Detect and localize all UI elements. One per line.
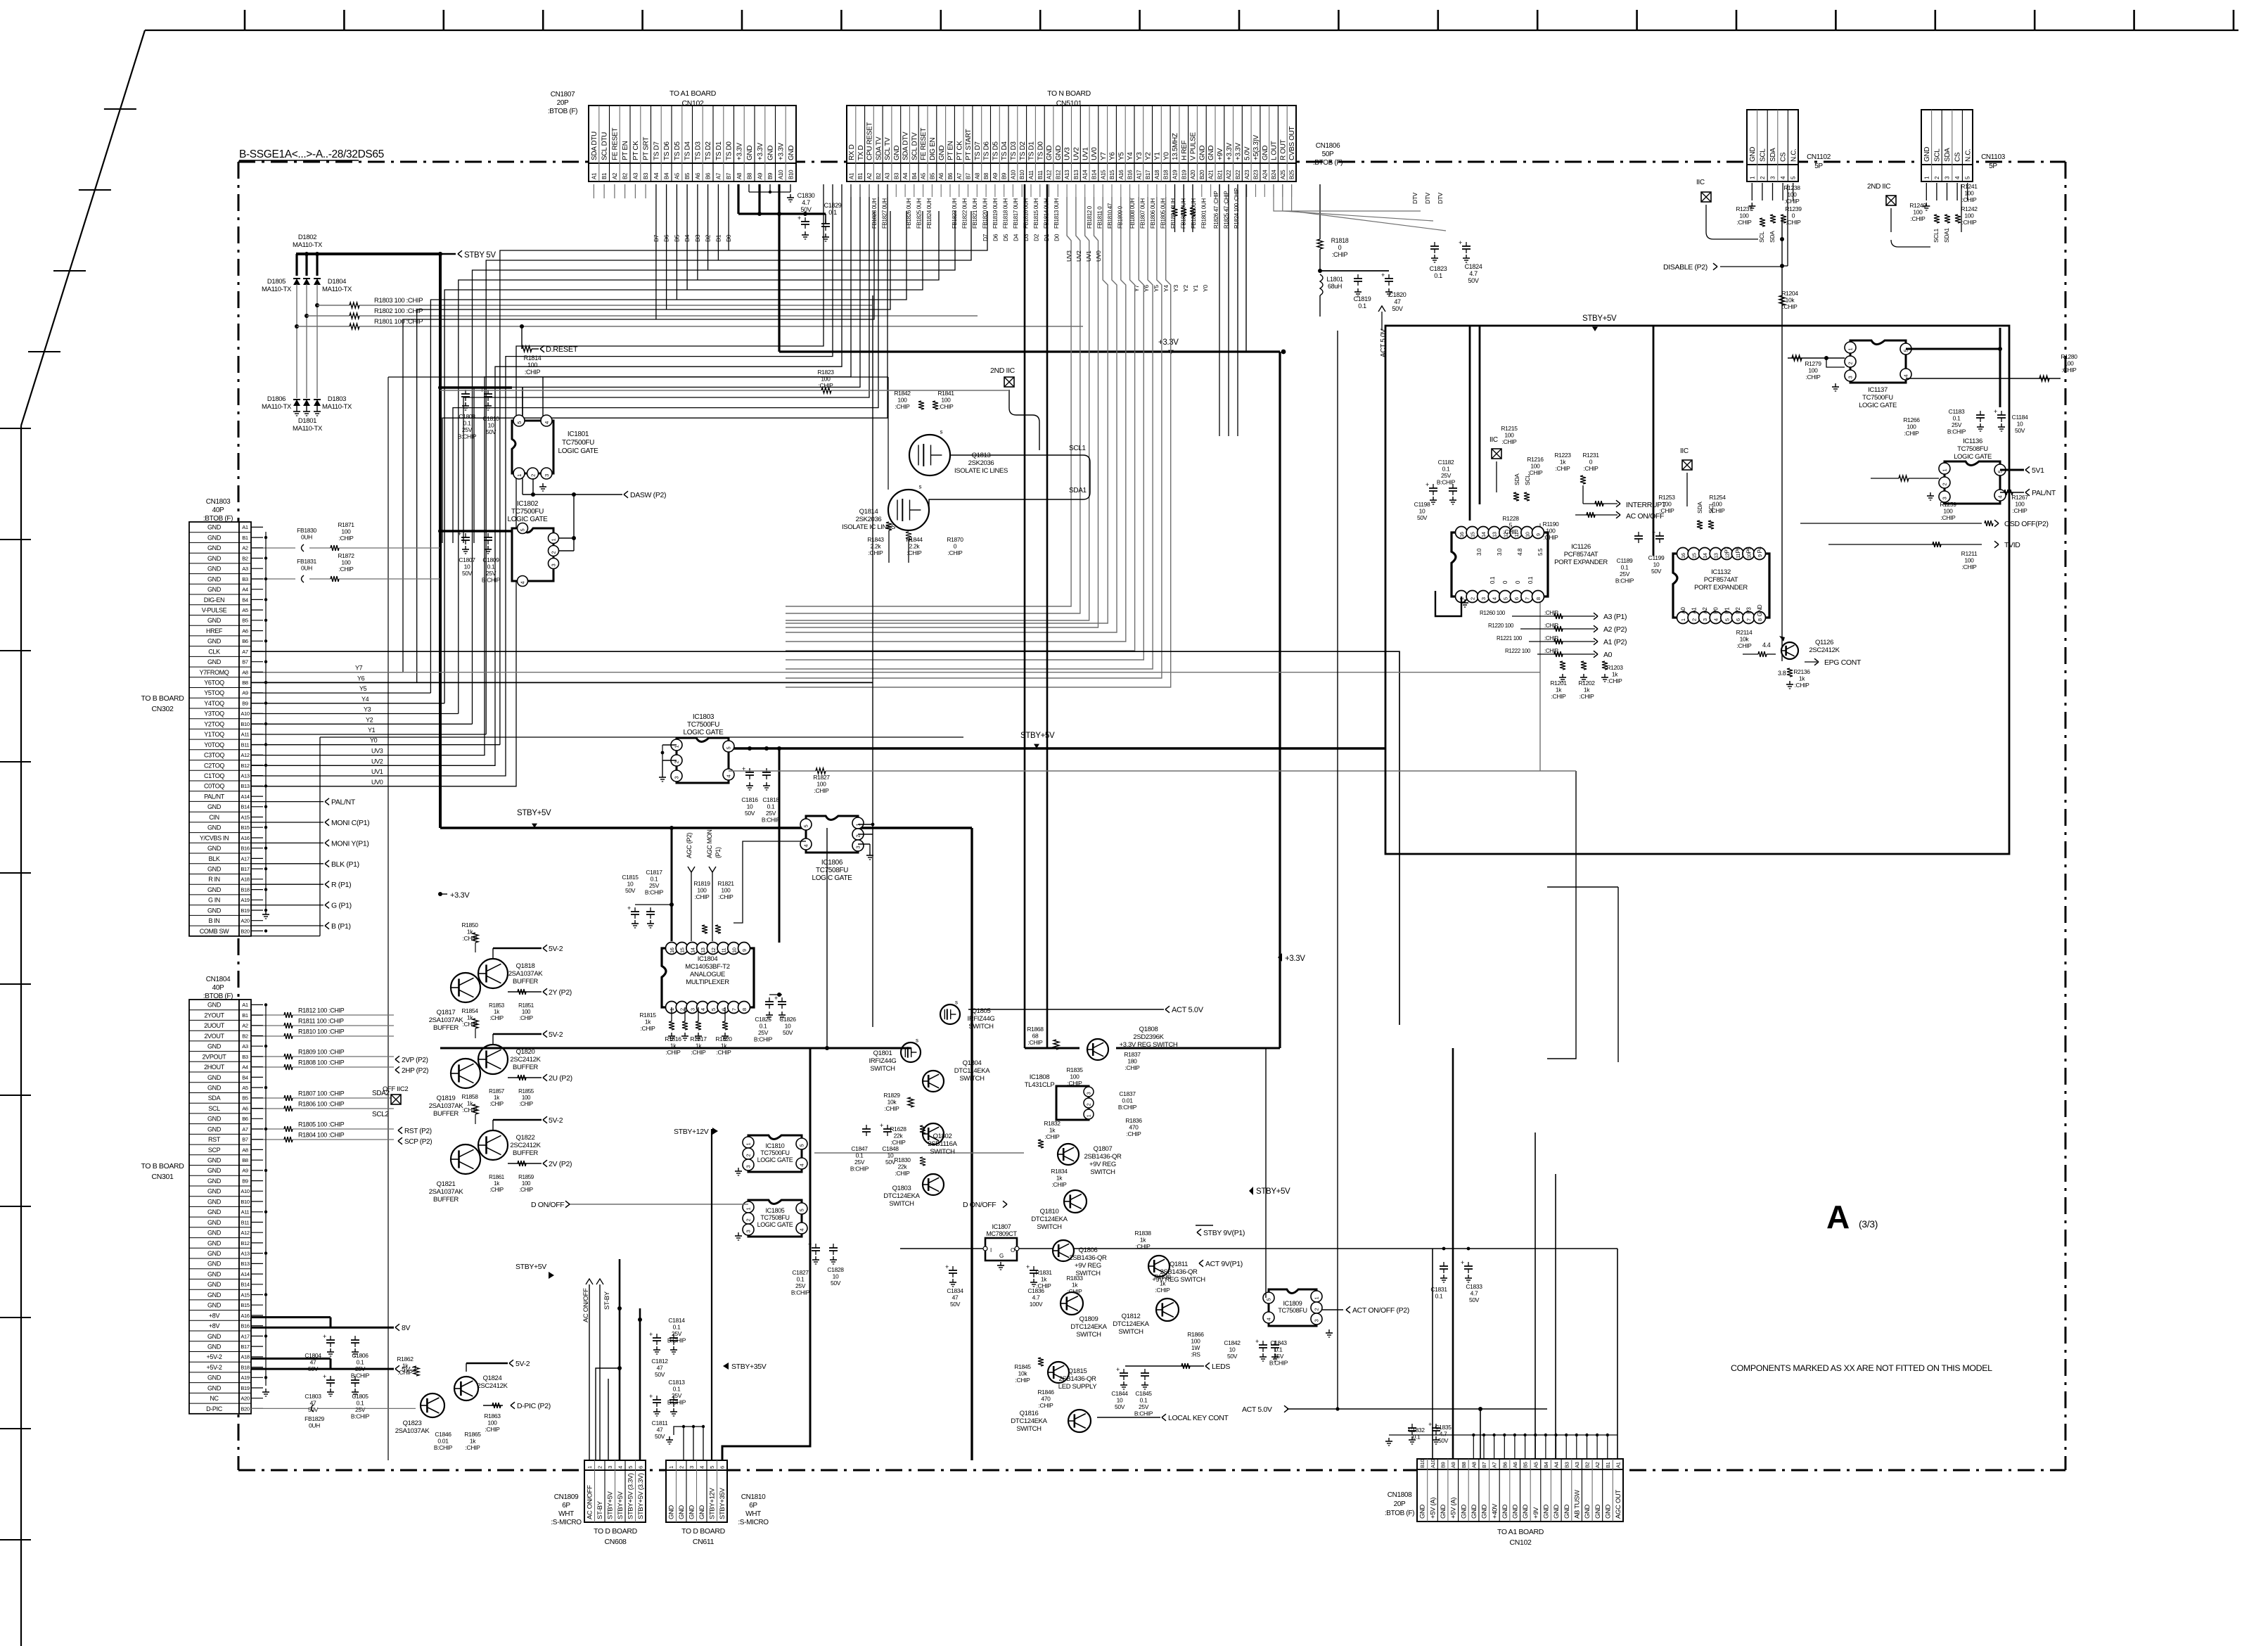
svg-text:50V: 50V [801, 206, 812, 213]
svg-text:4: 4 [726, 775, 732, 778]
svg-text:+9V REG: +9V REG [1089, 1161, 1116, 1168]
svg-text:A18: A18 [241, 1354, 249, 1360]
svg-text:1k: 1k [1799, 675, 1805, 682]
svg-text:STBY+5V (3.3V): STBY+5V (3.3V) [627, 1473, 635, 1519]
svg-text:1k: 1k [1056, 1175, 1063, 1182]
svg-text:H REF: H REF [1181, 141, 1189, 160]
svg-text:A7: A7 [242, 1126, 248, 1133]
svg-text:A17: A17 [241, 855, 249, 862]
svg-text:LOGIC GATE: LOGIC GATE [757, 1221, 793, 1228]
svg-text:10: 10 [1117, 1397, 1123, 1404]
svg-text:0.1: 0.1 [1140, 1397, 1148, 1404]
svg-text:PT CK: PT CK [632, 141, 640, 160]
svg-text::CHIP: :CHIP [463, 1021, 478, 1028]
svg-text:R1812 100 :CHIP: R1812 100 :CHIP [298, 1007, 345, 1014]
svg-text:CN1103: CN1103 [1981, 153, 2006, 161]
svg-text:UV3: UV3 [1064, 147, 1072, 160]
svg-text:B:CHIP: B:CHIP [351, 1372, 370, 1379]
svg-text:STBY+12V: STBY+12V [674, 1128, 709, 1136]
svg-text:B3: B3 [242, 1054, 248, 1060]
svg-text:RST: RST [208, 1136, 221, 1143]
svg-text:2SB1116A: 2SB1116A [928, 1140, 957, 1148]
svg-text:P1: P1 [1724, 607, 1730, 614]
svg-text:G: G [999, 1253, 1004, 1259]
svg-text:A13: A13 [241, 773, 249, 779]
svg-text:R OUT: R OUT [1279, 139, 1287, 160]
svg-text:100: 100 [1662, 501, 1672, 508]
svg-text:0.1: 0.1 [1527, 576, 1534, 584]
svg-text:GND: GND [207, 638, 222, 645]
svg-text:50V: 50V [655, 1433, 665, 1440]
svg-text:Q1817: Q1817 [437, 1009, 456, 1016]
svg-text:D1803: D1803 [328, 395, 346, 403]
svg-text:C1182: C1182 [1438, 459, 1454, 466]
svg-text:TS D5: TS D5 [992, 141, 1000, 160]
svg-text:1k: 1k [467, 1014, 473, 1021]
svg-text:R1865: R1865 [464, 1431, 481, 1438]
svg-text:C1814: C1814 [668, 1317, 685, 1324]
svg-text:100: 100 [1964, 557, 1974, 564]
svg-text:FB1831: FB1831 [297, 558, 316, 565]
svg-text:Y4: Y4 [1127, 152, 1134, 160]
svg-text:13: 13 [1492, 532, 1498, 537]
svg-text:FB1809 0: FB1809 0 [1117, 205, 1124, 229]
svg-text:PAL/NT: PAL/NT [331, 798, 356, 807]
svg-text:A23: A23 [1244, 170, 1250, 179]
svg-text:R1238: R1238 [1783, 184, 1800, 191]
svg-text::CHIP: :CHIP [1127, 1130, 1142, 1137]
svg-text:A3: A3 [885, 172, 891, 179]
svg-text:Q1807: Q1807 [1094, 1145, 1113, 1153]
svg-text:A10: A10 [778, 170, 784, 179]
svg-text:B2: B2 [242, 555, 248, 561]
svg-text:STBY+5V: STBY+5V [515, 1263, 546, 1271]
svg-text:B:CHIP: B:CHIP [482, 577, 501, 584]
svg-text:5: 5 [1266, 1299, 1272, 1301]
svg-text:CN1806: CN1806 [1316, 142, 1340, 150]
svg-text:50V: 50V [625, 887, 636, 894]
svg-text:B2: B2 [242, 1033, 248, 1039]
svg-text:B14: B14 [1091, 170, 1098, 179]
svg-text:GND: GND [1419, 1504, 1427, 1519]
svg-text:TC7500FU: TC7500FU [1862, 394, 1893, 402]
svg-text:5.5: 5.5 [1537, 548, 1544, 556]
svg-text:BUFFER: BUFFER [433, 1110, 459, 1118]
svg-text:D7: D7 [982, 234, 989, 241]
svg-text:UV0: UV0 [1095, 250, 1102, 262]
svg-text:1: 1 [1314, 1297, 1320, 1300]
svg-text::CHIP: :CHIP [398, 1369, 414, 1376]
svg-text:BUFFER: BUFFER [513, 1064, 538, 1071]
svg-text:Q1814: Q1814 [859, 508, 878, 516]
svg-text:B7: B7 [726, 172, 732, 179]
svg-text:IRFIZ44G: IRFIZ44G [869, 1057, 897, 1065]
svg-text:25V: 25V [672, 1392, 682, 1399]
svg-text::CHIP: :CHIP [1136, 1243, 1151, 1250]
svg-text:Y3TOQ: Y3TOQ [204, 710, 224, 717]
svg-text:TS D2: TS D2 [705, 141, 712, 160]
svg-text:0.1: 0.1 [828, 209, 837, 216]
svg-text:Q1808: Q1808 [1139, 1026, 1158, 1033]
svg-text:50V: 50V [1392, 305, 1403, 312]
svg-text:GND: GND [1923, 147, 1931, 162]
svg-text:B:CHIP: B:CHIP [762, 817, 781, 824]
svg-text:100: 100 [1787, 191, 1797, 198]
svg-text:25V: 25V [1139, 1403, 1149, 1410]
svg-text:3: 3 [544, 474, 550, 477]
svg-text:1: 1 [1087, 1114, 1092, 1117]
svg-text:50V: 50V [1417, 514, 1428, 521]
svg-text:B4: B4 [242, 1074, 248, 1080]
svg-text:R1203: R1203 [1606, 664, 1623, 671]
svg-text:15: 15 [679, 948, 686, 953]
svg-text:Q1815: Q1815 [1068, 1367, 1087, 1375]
svg-text:2SC2412K: 2SC2412K [1809, 646, 1840, 654]
svg-text:D4: D4 [684, 234, 691, 242]
svg-text::BTOB (F): :BTOB (F) [1313, 159, 1343, 167]
svg-text::BTOB (F): :BTOB (F) [203, 993, 233, 1000]
svg-text:MA110-TX: MA110-TX [322, 286, 352, 293]
svg-text:I: I [990, 1247, 992, 1253]
svg-text:Y6: Y6 [1109, 152, 1117, 160]
svg-text:0UH: 0UH [301, 534, 312, 541]
svg-text:A7: A7 [956, 172, 963, 179]
svg-text:0: 0 [1792, 212, 1795, 219]
svg-text:4: 4 [799, 1229, 805, 1232]
svg-text:B5: B5 [242, 618, 248, 624]
svg-text:B:CHIP: B:CHIP [1134, 1410, 1153, 1417]
svg-text:B:CHIP: B:CHIP [667, 1399, 686, 1406]
svg-text:2UOUT: 2UOUT [204, 1022, 225, 1029]
svg-text:+8V: +8V [209, 1312, 220, 1319]
svg-text:470: 470 [1129, 1124, 1139, 1131]
svg-text:B17: B17 [241, 866, 249, 872]
svg-text:MA110-TX: MA110-TX [293, 241, 323, 249]
svg-text:+3.3V: +3.3V [757, 143, 764, 160]
svg-text:UV0: UV0 [1091, 147, 1098, 160]
svg-text:STBY+5V: STBY+5V [1256, 1187, 1290, 1196]
svg-text:A7: A7 [1492, 1462, 1498, 1468]
svg-text:C1831: C1831 [1430, 1286, 1447, 1293]
svg-text:IC1801: IC1801 [568, 430, 589, 438]
svg-text:DTC124EKA: DTC124EKA [1031, 1216, 1068, 1223]
svg-text:B1: B1 [242, 535, 248, 541]
svg-text:BUFFER: BUFFER [433, 1196, 459, 1204]
svg-text::CHIP: :CHIP [1580, 693, 1595, 700]
svg-text:B3: B3 [242, 576, 248, 582]
svg-text:AB TUSW: AB TUSW [1574, 1490, 1582, 1519]
svg-text:5V-2: 5V-2 [549, 1116, 563, 1125]
svg-text:FB1825 0UH: FB1825 0UH [916, 198, 923, 229]
svg-text::CHIP: :CHIP [1039, 1402, 1054, 1409]
svg-text:0.1: 0.1 [357, 1359, 364, 1366]
svg-text:Y5: Y5 [359, 685, 367, 692]
svg-text:A2 (P2): A2 (P2) [1603, 625, 1627, 634]
svg-text:C1830: C1830 [797, 192, 815, 199]
svg-text:10: 10 [2017, 421, 2023, 428]
svg-text::CHIP: :CHIP [525, 369, 541, 376]
svg-text:+: + [649, 1331, 653, 1338]
svg-text::CHIP: :CHIP [1911, 215, 1926, 222]
svg-text:Y1: Y1 [1192, 285, 1199, 292]
svg-text:GND: GND [1481, 1504, 1489, 1519]
svg-text::CHIP: :CHIP [907, 549, 923, 556]
svg-text:IC1132: IC1132 [1711, 568, 1731, 576]
svg-text:Q1822: Q1822 [516, 1134, 535, 1142]
svg-text:25V: 25V [649, 882, 660, 889]
svg-text:MA110-TX: MA110-TX [262, 403, 292, 411]
svg-text:DTC114EKA: DTC114EKA [954, 1067, 991, 1075]
svg-text:A24: A24 [1262, 170, 1268, 179]
svg-text:R1814: R1814 [524, 355, 542, 362]
svg-text:0.1: 0.1 [1489, 576, 1496, 584]
svg-text:100: 100 [721, 887, 731, 894]
svg-text:0.1: 0.1 [1358, 302, 1366, 310]
svg-text:P7: P7 [1724, 547, 1730, 554]
svg-text:STBY+5V: STBY+5V [1020, 732, 1055, 740]
svg-text:C1815: C1815 [622, 874, 639, 881]
svg-text::CHIP: :CHIP [1962, 219, 1978, 226]
svg-text:R1819: R1819 [693, 880, 710, 887]
svg-text:SCL1: SCL1 [1069, 445, 1086, 452]
svg-text:TC7508FU: TC7508FU [816, 867, 848, 874]
svg-text:D6: D6 [992, 234, 999, 241]
svg-text:Q1823: Q1823 [403, 1419, 422, 1427]
svg-text:0: 0 [1338, 244, 1342, 251]
svg-text:+: + [797, 215, 801, 222]
svg-text:3: 3 [1847, 376, 1854, 379]
svg-text:A11: A11 [241, 732, 250, 738]
svg-text:R1817: R1817 [690, 1035, 707, 1042]
svg-text:A3: A3 [242, 566, 248, 572]
svg-text:A0: A0 [1680, 607, 1686, 614]
svg-text:Y/CVBS IN: Y/CVBS IN [200, 834, 229, 841]
svg-text::CHIP: :CHIP [1016, 1377, 1031, 1384]
svg-text::CHIP: :CHIP [641, 1025, 656, 1032]
svg-text:R1833: R1833 [1066, 1275, 1083, 1282]
svg-text::CHIP: :CHIP [1786, 219, 1802, 226]
svg-text:UV1: UV1 [1082, 147, 1089, 160]
svg-text:D7: D7 [653, 234, 660, 242]
svg-text:2HP (P2): 2HP (P2) [402, 1067, 428, 1075]
svg-text:R1811 100 :CHIP: R1811 100 :CHIP [298, 1018, 344, 1025]
svg-text:13: 13 [700, 948, 706, 953]
svg-text:IC1807: IC1807 [992, 1223, 1011, 1230]
svg-text:C1845: C1845 [1135, 1390, 1152, 1397]
svg-text:3: 3 [551, 564, 557, 567]
svg-text:50V: 50V [462, 570, 473, 577]
svg-text:+9V REG: +9V REG [1075, 1262, 1101, 1270]
svg-text:STBY+12V: STBY+12V [709, 1488, 717, 1519]
svg-text:FB1801 0UH: FB1801 0UH [1201, 198, 1207, 229]
svg-text:5V-2: 5V-2 [549, 1031, 563, 1039]
svg-text:A25: A25 [1280, 170, 1286, 179]
svg-text:180: 180 [1127, 1058, 1137, 1065]
svg-text:R1806 100 :CHIP: R1806 100 :CHIP [298, 1101, 345, 1108]
svg-text:2: 2 [679, 1466, 685, 1469]
svg-text:2: 2 [855, 835, 861, 838]
svg-text:GND: GND [207, 845, 222, 852]
svg-text:TVID: TVID [2004, 541, 2020, 549]
svg-text:B8: B8 [242, 680, 248, 686]
svg-text::CHIP: :CHIP [1737, 219, 1753, 226]
svg-text:TS D3: TS D3 [1010, 141, 1018, 160]
svg-text:20P: 20P [1394, 1500, 1406, 1508]
svg-text:Y1: Y1 [368, 727, 376, 734]
svg-text:SCL: SCL [1934, 148, 1942, 162]
svg-text:LOGIC GATE: LOGIC GATE [1859, 402, 1897, 409]
svg-text:TS D5: TS D5 [674, 141, 681, 160]
svg-text:A6: A6 [1512, 1462, 1518, 1468]
svg-text:Y0: Y0 [370, 737, 378, 744]
svg-text:A18: A18 [241, 876, 249, 883]
svg-text:A22: A22 [1226, 170, 1232, 179]
svg-text:Y0: Y0 [1202, 285, 1209, 292]
svg-text:R IN: R IN [208, 876, 220, 883]
svg-text:D0: D0 [1053, 234, 1061, 241]
svg-text:Y7: Y7 [1100, 152, 1108, 160]
svg-text:GND: GND [207, 1230, 222, 1237]
svg-text:C1844: C1844 [1111, 1390, 1128, 1397]
svg-text:G (P1): G (P1) [331, 902, 352, 910]
svg-text:R1821: R1821 [717, 880, 734, 887]
svg-text:PAL/NT: PAL/NT [2032, 489, 2056, 497]
svg-text:R1835: R1835 [1066, 1066, 1083, 1073]
svg-text:FB1827 0UH: FB1827 0UH [882, 198, 888, 229]
svg-text:10: 10 [1419, 508, 1425, 515]
svg-text:100: 100 [1964, 212, 1974, 219]
svg-text:D1805: D1805 [267, 278, 286, 286]
svg-text:s: s [940, 429, 943, 435]
svg-text:UV2: UV2 [371, 758, 383, 765]
svg-text:3: 3 [689, 1008, 696, 1011]
svg-text:1k: 1k [1612, 671, 1618, 678]
svg-text:B16: B16 [241, 1323, 249, 1329]
svg-text:B16: B16 [241, 846, 249, 852]
svg-text:0UH: 0UH [301, 565, 312, 572]
svg-text:B3: B3 [893, 172, 899, 179]
svg-text:DIG EN: DIG EN [929, 138, 937, 160]
svg-text:68uH: 68uH [1328, 283, 1342, 290]
svg-text:D2: D2 [1033, 234, 1040, 241]
svg-text:D5: D5 [1002, 234, 1009, 241]
svg-text:IC1802: IC1802 [517, 500, 539, 508]
svg-text:10k: 10k [1786, 297, 1795, 304]
svg-text:16: 16 [1680, 553, 1686, 559]
svg-text:GND: GND [207, 586, 222, 593]
svg-text:100: 100 [1943, 508, 1953, 515]
svg-text:FB1806 0UH: FB1806 0UH [1150, 198, 1156, 229]
svg-text:A19: A19 [241, 1374, 249, 1381]
svg-text:+: + [323, 1333, 326, 1340]
svg-text:R1871: R1871 [338, 521, 354, 528]
svg-text:A14: A14 [241, 793, 249, 800]
svg-text:2SA1037AK: 2SA1037AK [429, 1016, 464, 1024]
svg-text:Y2: Y2 [366, 716, 373, 723]
svg-text:TC7508FU: TC7508FU [760, 1214, 789, 1221]
svg-text::CHIP: :CHIP [1551, 693, 1567, 700]
svg-text:50V: 50V [831, 1280, 841, 1287]
svg-text:5: 5 [1502, 597, 1508, 600]
svg-text:IC1805: IC1805 [766, 1207, 785, 1214]
svg-text:SWITCH: SWITCH [1076, 1331, 1101, 1339]
svg-text::CHIP: :CHIP [1962, 563, 1978, 570]
svg-text:2: 2 [1470, 597, 1476, 600]
svg-text:Q1810: Q1810 [1040, 1208, 1059, 1216]
svg-text:TO D BOARD: TO D BOARD [681, 1527, 725, 1536]
svg-text:Y5TOQ: Y5TOQ [204, 689, 224, 696]
svg-text:6: 6 [721, 1008, 727, 1011]
svg-text:B9: B9 [1001, 172, 1008, 179]
svg-text:FB1811 0: FB1811 0 [1097, 206, 1103, 229]
svg-text:3: 3 [1702, 618, 1708, 621]
svg-text:0: 0 [954, 543, 957, 550]
svg-text:1: 1 [745, 1143, 752, 1146]
svg-text:B18: B18 [241, 886, 249, 893]
svg-text:GND: GND [1262, 146, 1269, 160]
svg-text:SCL DTV: SCL DTV [911, 132, 918, 160]
svg-text:15: 15 [1470, 532, 1476, 537]
svg-text:WHT: WHT [558, 1510, 574, 1518]
svg-text:CN1809: CN1809 [554, 1493, 579, 1501]
svg-text:D3: D3 [1023, 234, 1030, 241]
svg-text:5: 5 [520, 529, 526, 532]
svg-text:R1850: R1850 [461, 921, 478, 929]
svg-text:C1813: C1813 [668, 1379, 685, 1386]
svg-text:6: 6 [1513, 597, 1520, 600]
svg-text:4.7: 4.7 [802, 199, 810, 206]
svg-text:0.1: 0.1 [856, 1152, 864, 1159]
svg-text:100: 100 [821, 376, 831, 383]
svg-text:2.2k: 2.2k [871, 543, 882, 550]
svg-text:C1807: C1807 [459, 556, 475, 563]
svg-text:+: + [1461, 1259, 1464, 1266]
svg-text:BLK (P1): BLK (P1) [331, 860, 359, 869]
svg-text:2SC2412K: 2SC2412K [477, 1382, 508, 1390]
svg-text:100: 100 [1913, 209, 1923, 216]
svg-text:3.0: 3.0 [1497, 548, 1503, 556]
svg-text:B:CHIP: B:CHIP [645, 889, 664, 896]
svg-text:R1820: R1820 [715, 1035, 732, 1042]
svg-text:A21: A21 [1208, 170, 1215, 179]
svg-text:5P: 5P [1989, 162, 1997, 170]
svg-text:5: 5 [709, 1466, 715, 1469]
svg-text:FB1815 0UH: FB1815 0UH [1033, 198, 1039, 229]
svg-text:R1231: R1231 [1582, 452, 1599, 459]
svg-text:B1: B1 [242, 1012, 248, 1019]
svg-text:B15: B15 [241, 824, 249, 831]
svg-text::CHIP: :CHIP [519, 1015, 533, 1021]
svg-text:B13: B13 [241, 783, 249, 789]
svg-text:GND: GND [1563, 1504, 1571, 1519]
svg-text:4: 4 [1903, 375, 1909, 378]
svg-text:B2: B2 [876, 172, 882, 179]
svg-text:R1259: R1259 [1940, 501, 1956, 508]
svg-text:C1829: C1829 [824, 202, 842, 209]
svg-text:25V: 25V [1952, 421, 1962, 428]
svg-text:GND: GND [1460, 1504, 1468, 1519]
svg-text:CN302: CN302 [152, 705, 174, 713]
svg-text:R1872: R1872 [338, 552, 354, 559]
svg-text::CHIP: :CHIP [463, 1106, 478, 1114]
svg-text:100: 100 [1530, 463, 1540, 470]
svg-text:MULTIPLEXER: MULTIPLEXER [686, 978, 729, 986]
svg-text:+: + [945, 1263, 949, 1270]
svg-text:B:CHIP: B:CHIP [850, 1166, 869, 1173]
svg-text:100: 100 [341, 559, 351, 566]
svg-text:A14: A14 [1082, 170, 1089, 179]
svg-text:2ND IIC: 2ND IIC [990, 366, 1016, 375]
